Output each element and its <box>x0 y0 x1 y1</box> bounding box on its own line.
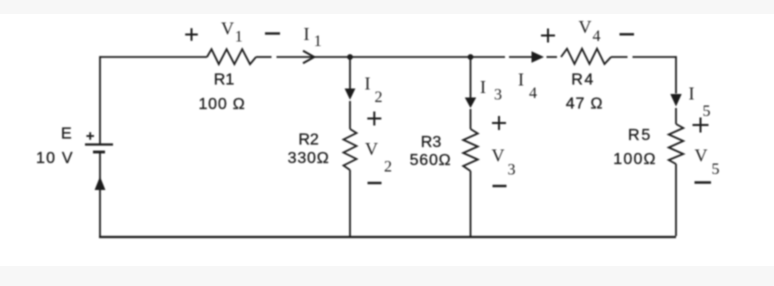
svg-text:I: I <box>304 24 310 44</box>
svg-text:V: V <box>695 146 708 166</box>
svg-text:R3: R3 <box>421 134 442 151</box>
arrow I1 chevron <box>303 51 314 63</box>
minus sign V5 <box>695 181 712 183</box>
wire R3 branch lower <box>470 171 472 236</box>
label E <box>61 126 72 143</box>
wire top-left segment <box>100 56 207 58</box>
svg-text:5: 5 <box>712 161 720 178</box>
label I4 <box>518 70 537 103</box>
svg-text:R2: R2 <box>298 132 319 149</box>
label R5 <box>628 127 652 144</box>
wire R2 branch lower <box>349 170 351 236</box>
svg-text:R1: R1 <box>214 72 235 89</box>
plus sign V3 <box>492 116 506 130</box>
plus sign V1 <box>185 28 198 41</box>
svg-text:10 V: 10 V <box>36 150 74 167</box>
resistor R3 <box>463 129 478 171</box>
wire left vertical lower <box>99 152 101 237</box>
label 100 Ω value R1 <box>198 96 245 113</box>
arrow I4 <box>532 51 545 62</box>
wire node A to node B <box>350 56 471 58</box>
label R2 <box>298 132 319 149</box>
wire right vertical upper <box>675 56 677 93</box>
label R4 <box>571 72 594 89</box>
svg-text:R4: R4 <box>571 72 594 89</box>
bottom gray bar <box>0 266 774 286</box>
wire R1 to gap <box>256 56 272 58</box>
wire gap to node A <box>277 56 351 58</box>
label V4 <box>579 17 601 45</box>
svg-text:100 Ω: 100 Ω <box>198 96 245 113</box>
node B junction dot <box>468 54 474 60</box>
arrow I2 <box>345 89 356 100</box>
arrow I3 <box>465 98 476 109</box>
minus sign V2 <box>368 182 382 184</box>
svg-text:330Ω: 330Ω <box>288 150 330 167</box>
wire R2 branch mid <box>349 101 351 129</box>
wire right vertical mid <box>675 108 677 124</box>
svg-text:560Ω: 560Ω <box>410 152 452 169</box>
label R1 <box>214 72 235 89</box>
svg-text:V: V <box>365 139 378 159</box>
resistor R1 <box>207 49 256 64</box>
svg-text:2: 2 <box>375 89 383 106</box>
svg-text:I: I <box>689 84 695 104</box>
svg-text:R5: R5 <box>628 127 652 144</box>
label V5 <box>695 146 720 179</box>
label V1 <box>221 19 243 46</box>
svg-text:V: V <box>579 17 592 37</box>
svg-text:4: 4 <box>593 28 601 45</box>
wire R2 branch upper <box>349 57 351 89</box>
svg-text:I: I <box>518 70 524 90</box>
svg-text:5: 5 <box>703 103 711 120</box>
wire I4 arrow to R4 <box>547 56 558 58</box>
arrow I5 <box>670 94 681 107</box>
battery polarity plus <box>86 132 94 140</box>
battery E plates <box>85 145 113 153</box>
label I3 <box>480 77 502 104</box>
minus sign V1 <box>265 32 280 34</box>
svg-text:E: E <box>61 126 72 143</box>
plus sign V2 <box>367 112 381 126</box>
wire to I4 arrow <box>509 56 532 58</box>
wire gap to top-right corner <box>633 56 677 58</box>
resistor R4 <box>561 49 611 64</box>
resistor R5 <box>669 124 684 164</box>
plus sign V4 <box>541 29 555 43</box>
svg-text:100Ω: 100Ω <box>613 151 656 168</box>
wire R4 to gap <box>611 56 628 58</box>
arrow battery current up <box>95 177 106 191</box>
wire bottom rail <box>99 236 676 238</box>
plus sign V5 <box>693 118 709 133</box>
label 100Ω value R5 <box>613 151 656 168</box>
svg-text:1: 1 <box>235 29 243 46</box>
label 10 V <box>36 150 74 167</box>
label V3 <box>492 145 516 178</box>
wire right vertical lower <box>675 164 677 236</box>
wire R3 branch upper <box>470 57 472 98</box>
wire node B rightward <box>471 56 506 58</box>
label V2 <box>365 139 392 176</box>
label 560Ω value R3 <box>410 152 452 169</box>
label R3 <box>421 134 442 151</box>
label 330Ω value R2 <box>288 150 330 167</box>
top gray bar <box>0 0 774 14</box>
label 47 Ω value R4 <box>566 96 603 113</box>
svg-text:4: 4 <box>529 85 537 102</box>
svg-text:V: V <box>492 145 505 165</box>
node A junction dot <box>347 54 353 60</box>
minus sign V3 <box>493 185 507 187</box>
svg-text:3: 3 <box>508 162 516 179</box>
label I5 <box>689 84 711 121</box>
label I1 <box>304 24 322 50</box>
label I2 <box>365 74 383 107</box>
resistor R2 <box>344 129 357 170</box>
svg-text:2: 2 <box>384 159 392 176</box>
wire R3 branch mid <box>470 109 472 129</box>
svg-text:47 Ω: 47 Ω <box>566 96 603 113</box>
svg-text:3: 3 <box>494 87 502 104</box>
svg-text:I: I <box>365 74 371 94</box>
wire left vertical upper <box>99 56 101 143</box>
svg-text:I: I <box>480 77 486 97</box>
svg-text:1: 1 <box>314 33 322 50</box>
svg-text:V: V <box>221 19 234 39</box>
minus sign V4 <box>620 33 635 35</box>
